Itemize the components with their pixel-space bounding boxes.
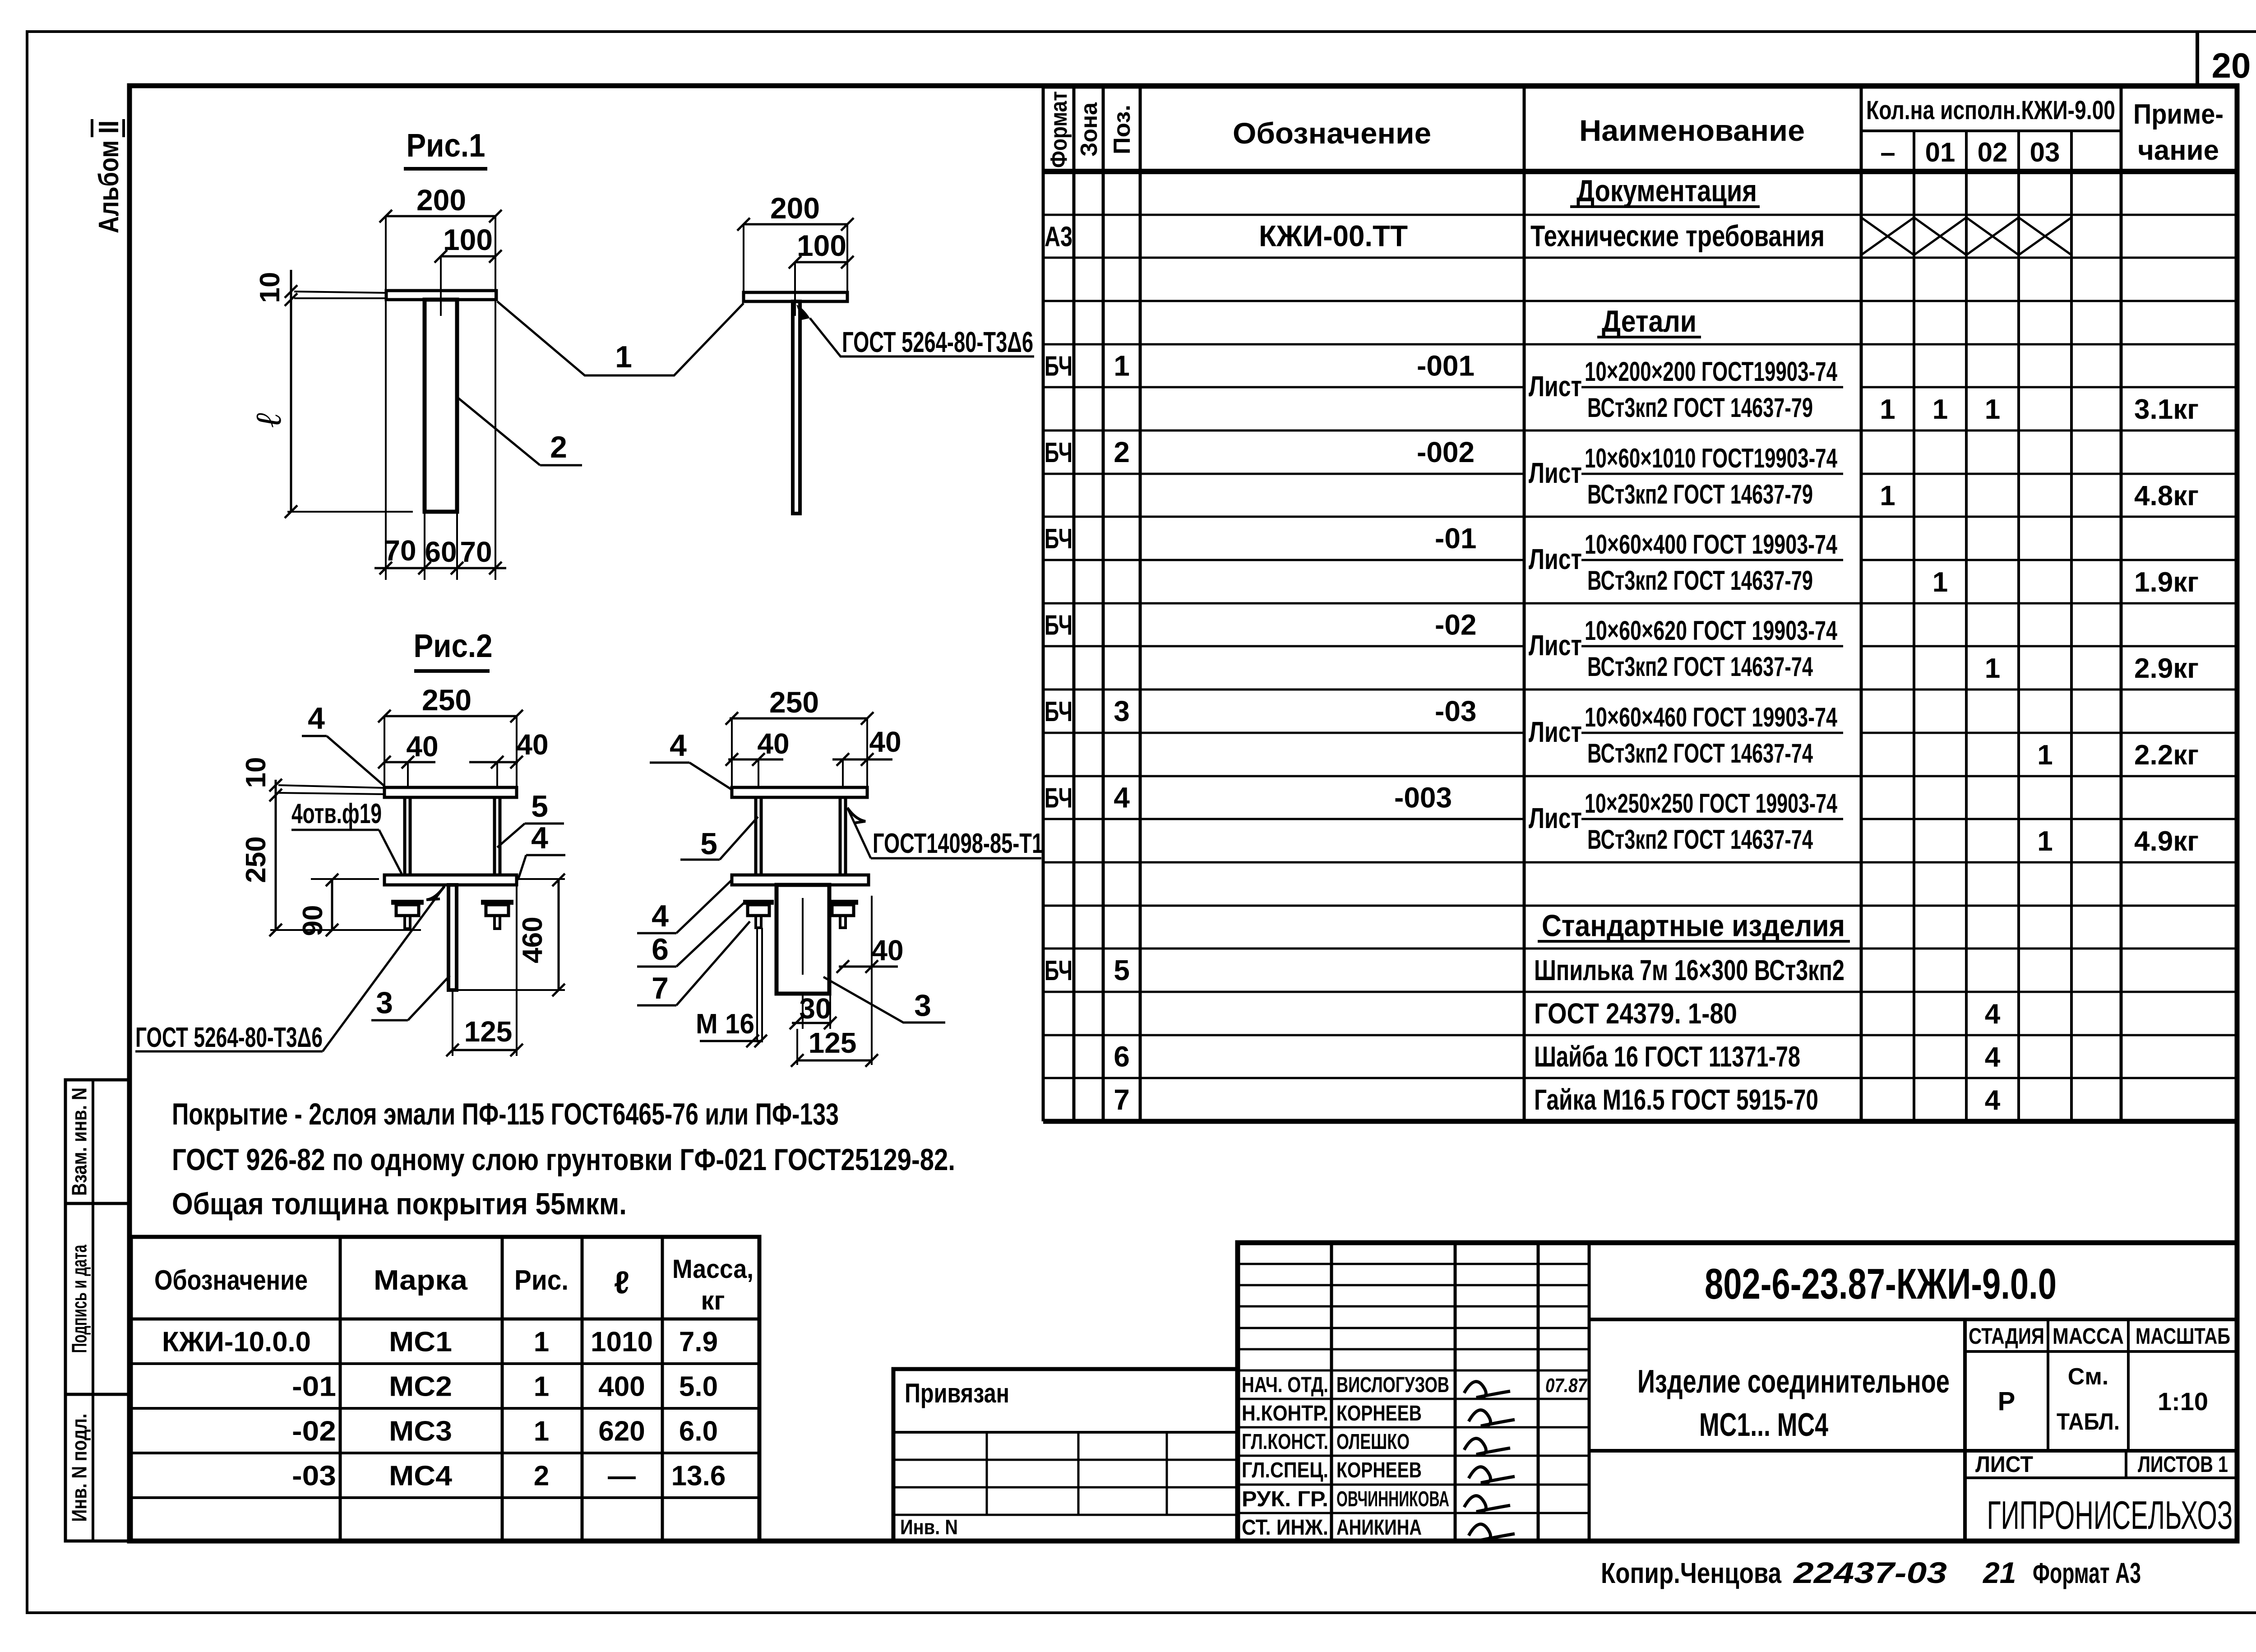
svg-text:1: 1	[1932, 567, 1948, 598]
svg-text:Лист: Лист	[1529, 629, 1582, 662]
svg-text:250: 250	[422, 683, 472, 717]
svg-text:4: 4	[652, 899, 669, 933]
svg-text:-02: -02	[292, 1416, 336, 1447]
svg-text:А3: А3	[1045, 222, 1073, 253]
svg-text:МС4: МС4	[389, 1461, 453, 1492]
svg-text:БЧ: БЧ	[1045, 955, 1073, 986]
svg-text:Технические требования: Технические требования	[1530, 219, 1825, 253]
svg-text:Марка: Марка	[374, 1265, 468, 1296]
svg-text:1:10: 1:10	[2158, 1387, 2208, 1416]
svg-text:—: —	[608, 1461, 636, 1492]
svg-text:802-6-23.87-КЖИ-9.0.0: 802-6-23.87-КЖИ-9.0.0	[1705, 1260, 2057, 1308]
svg-text:ГЛ.КОНСТ.: ГЛ.КОНСТ.	[1242, 1430, 1328, 1454]
svg-text:Рис.1: Рис.1	[407, 128, 485, 164]
svg-text:60: 60	[425, 536, 457, 568]
svg-text:ГОСТ 5264-80-Т3Δ6: ГОСТ 5264-80-Т3Δ6	[135, 1022, 323, 1053]
svg-text:КОРНЕЕВ: КОРНЕЕВ	[1336, 1402, 1422, 1425]
svg-text:Лист: Лист	[1529, 370, 1582, 403]
svg-text:ВСт3кп2 ГОСТ 14637-74: ВСт3кп2 ГОСТ 14637-74	[1587, 824, 1813, 855]
svg-text:ВСт3кп2 ГОСТ 14637-74: ВСт3кп2 ГОСТ 14637-74	[1587, 738, 1813, 768]
svg-text:1: 1	[615, 340, 632, 374]
svg-text:3: 3	[376, 986, 393, 1020]
svg-text:ℓ: ℓ	[249, 412, 289, 427]
svg-text:Копир.Ченцова: Копир.Ченцова	[1601, 1557, 1781, 1589]
svg-text:Рис.: Рис.	[514, 1265, 569, 1296]
svg-text:200: 200	[416, 183, 466, 217]
svg-text:БЧ: БЧ	[1045, 437, 1073, 468]
svg-text:4: 4	[670, 728, 687, 763]
svg-text:10: 10	[240, 757, 272, 788]
svg-text:–: –	[1880, 137, 1895, 167]
svg-text:5: 5	[1114, 954, 1130, 986]
svg-text:1: 1	[534, 1327, 549, 1358]
svg-text:БЧ: БЧ	[1045, 783, 1073, 814]
svg-text:Покрытие - 2слоя эмали ПФ-115: Покрытие - 2слоя эмали ПФ-115 ГОСТ6465-7…	[172, 1097, 839, 1131]
svg-text:6: 6	[652, 932, 669, 967]
svg-text:Документация: Документация	[1576, 174, 1757, 208]
svg-text:ВИСЛОГУЗОВ: ВИСЛОГУЗОВ	[1336, 1373, 1449, 1397]
svg-text:МАСШТАБ: МАСШТАБ	[2136, 1323, 2230, 1349]
svg-text:10×200×200 ГОСТ19903-74: 10×200×200 ГОСТ19903-74	[1585, 356, 1837, 387]
svg-text:КОРНЕЕВ: КОРНЕЕВ	[1336, 1458, 1422, 1482]
svg-text:5.0: 5.0	[679, 1371, 718, 1402]
svg-text:6.0: 6.0	[679, 1416, 718, 1447]
svg-text:02: 02	[1978, 137, 2008, 167]
svg-text:Обозначение: Обозначение	[1233, 116, 1431, 150]
svg-text:1: 1	[1880, 481, 1895, 512]
svg-text:10×60×400 ГОСТ 19903-74: 10×60×400 ГОСТ 19903-74	[1585, 529, 1837, 560]
svg-text:-003: -003	[1394, 782, 1452, 814]
svg-text:125: 125	[464, 1015, 513, 1048]
svg-text:КЖИ-10.0.0: КЖИ-10.0.0	[162, 1327, 311, 1358]
svg-text:-02: -02	[1435, 609, 1477, 641]
svg-text:1: 1	[1985, 394, 2000, 425]
svg-text:6: 6	[1114, 1041, 1130, 1073]
svg-text:МС1... МС4: МС1... МС4	[1699, 1407, 1828, 1443]
svg-text:Общая толщина покрытия 55мкм.: Общая толщина покрытия 55мкм.	[172, 1187, 627, 1221]
svg-text:Подпись и дата: Подпись и дата	[68, 1245, 91, 1353]
svg-text:125: 125	[809, 1027, 857, 1059]
svg-text:Инв. N: Инв. N	[900, 1515, 958, 1539]
svg-text:1: 1	[1880, 394, 1895, 425]
svg-text:Обозначение: Обозначение	[154, 1265, 308, 1296]
svg-text:01: 01	[1925, 137, 1956, 167]
svg-text:ГОСТ14098-85-Т1: ГОСТ14098-85-Т1	[873, 828, 1043, 859]
svg-text:4: 4	[531, 821, 548, 855]
svg-text:90: 90	[297, 905, 328, 936]
svg-text:10×60×620 ГОСТ 19903-74: 10×60×620 ГОСТ 19903-74	[1585, 615, 1837, 646]
svg-text:20: 20	[2212, 46, 2251, 85]
svg-text:Лист: Лист	[1529, 716, 1582, 748]
svg-text:Инв. N подл.: Инв. N подл.	[68, 1414, 91, 1522]
svg-text:ЛИСТ: ЛИСТ	[1975, 1452, 2033, 1477]
svg-text:4: 4	[1985, 1042, 2001, 1073]
svg-text:ВСт3кп2 ГОСТ 14637-79: ВСт3кп2 ГОСТ 14637-79	[1587, 393, 1813, 423]
svg-text:НАЧ. ОТД.: НАЧ. ОТД.	[1242, 1373, 1328, 1397]
svg-text:КЖИ-00.ТТ: КЖИ-00.ТТ	[1259, 219, 1408, 253]
svg-text:-03: -03	[1435, 695, 1477, 727]
svg-text:13.6: 13.6	[671, 1461, 726, 1492]
svg-text:2: 2	[550, 430, 567, 464]
svg-text:Наименование: Наименование	[1579, 114, 1805, 147]
svg-text:ГИПРОНИСЕЛЬХОЗ: ГИПРОНИСЕЛЬХОЗ	[1987, 1493, 2233, 1537]
svg-text:Формат А3: Формат А3	[2033, 1557, 2141, 1589]
svg-text:Привязан: Привязан	[905, 1378, 1009, 1408]
svg-text:-01: -01	[292, 1371, 336, 1402]
svg-text:3: 3	[914, 988, 931, 1023]
svg-text:-03: -03	[292, 1461, 336, 1492]
svg-text:МС3: МС3	[389, 1416, 452, 1447]
svg-text:АНИКИНА: АНИКИНА	[1336, 1516, 1422, 1540]
svg-text:СТ. ИНЖ.: СТ. ИНЖ.	[1242, 1516, 1328, 1540]
svg-text:4: 4	[1985, 999, 2001, 1030]
svg-text:200: 200	[770, 191, 820, 225]
svg-text:40: 40	[516, 728, 548, 761]
svg-text:1.9кг: 1.9кг	[2134, 567, 2199, 598]
svg-text:Изделие соединительное: Изделие соединительное	[1637, 1364, 1950, 1400]
svg-text:4: 4	[308, 701, 325, 736]
svg-text:1: 1	[1932, 394, 1948, 425]
svg-text:Гайка М16.5 ГОСТ 5915-70: Гайка М16.5 ГОСТ 5915-70	[1534, 1083, 1818, 1116]
svg-text:М 16: М 16	[696, 1009, 754, 1040]
svg-text:03: 03	[2030, 137, 2060, 167]
svg-text:ℓ: ℓ	[614, 1265, 629, 1300]
svg-text:Лист: Лист	[1529, 543, 1582, 575]
svg-text:22437-03: 22437-03	[1793, 1556, 1947, 1589]
svg-text:2: 2	[1114, 436, 1130, 468]
svg-text:5: 5	[531, 789, 548, 824]
svg-text:МС2: МС2	[389, 1371, 452, 1402]
svg-text:40: 40	[757, 727, 789, 760]
svg-text:620: 620	[598, 1416, 645, 1447]
svg-text:Н.КОНТР.: Н.КОНТР.	[1242, 1402, 1328, 1425]
svg-text:МС1: МС1	[389, 1327, 452, 1358]
svg-text:100: 100	[443, 223, 493, 256]
svg-text:БЧ: БЧ	[1045, 610, 1073, 641]
svg-text:Шпилька 7м 16×300 ВСт3кп2: Шпилька 7м 16×300 ВСт3кп2	[1534, 954, 1845, 986]
svg-text:ВСт3кп2 ГОСТ 14637-74: ВСт3кп2 ГОСТ 14637-74	[1587, 652, 1813, 682]
svg-text:10: 10	[254, 272, 286, 303]
svg-text:07.87: 07.87	[1545, 1374, 1588, 1397]
svg-text:4: 4	[1985, 1085, 2001, 1116]
svg-text:3: 3	[1114, 695, 1130, 727]
svg-text:ЛИСТОВ 1: ЛИСТОВ 1	[2138, 1452, 2228, 1477]
svg-text:7.9: 7.9	[679, 1327, 718, 1358]
svg-text:1: 1	[2037, 740, 2053, 771]
svg-text:БЧ: БЧ	[1045, 351, 1073, 382]
svg-text:1: 1	[2037, 826, 2053, 857]
svg-text:1010: 1010	[591, 1327, 653, 1358]
svg-text:30: 30	[799, 992, 831, 1025]
svg-text:4.9кг: 4.9кг	[2134, 826, 2199, 857]
svg-text:40: 40	[869, 726, 901, 758]
svg-text:21: 21	[1982, 1556, 2016, 1589]
svg-text:ОЛЕШКО: ОЛЕШКО	[1336, 1430, 1410, 1454]
svg-text:ГОСТ 5264-80-Т3Δ6: ГОСТ 5264-80-Т3Δ6	[842, 326, 1033, 358]
svg-text:400: 400	[598, 1371, 645, 1402]
svg-text:250: 250	[240, 836, 272, 883]
svg-text:Рис.2: Рис.2	[414, 628, 493, 664]
svg-text:ОВЧИННИКОВА: ОВЧИННИКОВА	[1336, 1487, 1449, 1511]
svg-text:Р: Р	[1998, 1387, 2016, 1416]
svg-text:70: 70	[460, 536, 492, 568]
svg-text:ГОСТ 24379. 1-80: ГОСТ 24379. 1-80	[1534, 997, 1737, 1030]
svg-text:Альбом II: Альбом II	[93, 120, 125, 233]
svg-text:3.1кг: 3.1кг	[2134, 394, 2199, 425]
svg-text:БЧ: БЧ	[1045, 523, 1073, 555]
svg-text:1: 1	[534, 1371, 549, 1402]
svg-text:См.: См.	[2068, 1364, 2108, 1390]
svg-text:-001: -001	[1417, 350, 1475, 382]
svg-text:4: 4	[1114, 782, 1130, 814]
svg-text:ГЛ.СПЕЦ.: ГЛ.СПЕЦ.	[1242, 1458, 1328, 1482]
svg-text:Лист: Лист	[1529, 802, 1582, 834]
svg-text:ВСт3кп2 ГОСТ 14637-79: ВСт3кп2 ГОСТ 14637-79	[1587, 565, 1813, 596]
svg-text:Поз.: Поз.	[1109, 105, 1135, 154]
svg-text:ГОСТ 926-82 по одному слою гру: ГОСТ 926-82 по одному слою грунтовки ГФ-…	[172, 1143, 955, 1177]
svg-text:Приме-: Приме-	[2133, 99, 2224, 130]
svg-text:ТАБЛ.: ТАБЛ.	[2057, 1409, 2120, 1435]
svg-text:70: 70	[384, 534, 416, 567]
svg-text:1: 1	[1985, 653, 2000, 684]
svg-text:Масса,: Масса,	[672, 1254, 754, 1284]
svg-text:Шайба 16 ГОСТ 11371-78: Шайба 16 ГОСТ 11371-78	[1534, 1041, 1800, 1073]
svg-text:10×60×1010 ГОСТ19903-74: 10×60×1010 ГОСТ19903-74	[1585, 443, 1837, 473]
svg-text:2.2кг: 2.2кг	[2134, 740, 2199, 771]
svg-text:чание: чание	[2138, 135, 2219, 166]
svg-text:7: 7	[1114, 1083, 1130, 1116]
svg-text:Стандартные изделия: Стандартные изделия	[1542, 909, 1845, 943]
svg-text:МАССА: МАССА	[2053, 1323, 2124, 1349]
svg-text:4отв.ф19: 4отв.ф19	[291, 798, 382, 829]
svg-text:1: 1	[534, 1416, 549, 1447]
svg-text:460: 460	[517, 916, 548, 963]
svg-text:Лист: Лист	[1529, 457, 1582, 489]
svg-text:40: 40	[871, 934, 903, 967]
svg-text:-01: -01	[1435, 522, 1477, 555]
svg-text:Детали: Детали	[1602, 304, 1697, 338]
svg-text:Взам. инв. N: Взам. инв. N	[68, 1087, 91, 1196]
svg-text:2.9кг: 2.9кг	[2134, 653, 2199, 684]
svg-text:Формат: Формат	[1046, 91, 1072, 168]
svg-text:10×250×250 ГОСТ 19903-74: 10×250×250 ГОСТ 19903-74	[1585, 788, 1837, 819]
svg-text:Кол.на исполн.КЖИ-9.00: Кол.на исполн.КЖИ-9.00	[1866, 96, 2115, 125]
svg-text:40: 40	[406, 730, 438, 763]
svg-text:БЧ: БЧ	[1045, 696, 1073, 727]
svg-text:4.8кг: 4.8кг	[2134, 481, 2199, 512]
svg-text:-002: -002	[1417, 436, 1475, 468]
svg-text:10×60×460 ГОСТ 19903-74: 10×60×460 ГОСТ 19903-74	[1585, 702, 1837, 732]
svg-text:ВСт3кп2 ГОСТ 14637-79: ВСт3кп2 ГОСТ 14637-79	[1587, 479, 1813, 509]
svg-text:Зона: Зона	[1076, 102, 1102, 157]
svg-text:СТАДИЯ: СТАДИЯ	[1969, 1323, 2044, 1349]
svg-text:2: 2	[534, 1461, 549, 1492]
svg-text:РУК. ГР.: РУК. ГР.	[1242, 1487, 1328, 1511]
svg-text:100: 100	[797, 229, 846, 262]
svg-text:1: 1	[1114, 350, 1130, 382]
svg-text:250: 250	[769, 685, 819, 719]
svg-text:7: 7	[652, 971, 669, 1005]
svg-text:кг: кг	[701, 1286, 725, 1315]
svg-text:5: 5	[700, 827, 717, 861]
